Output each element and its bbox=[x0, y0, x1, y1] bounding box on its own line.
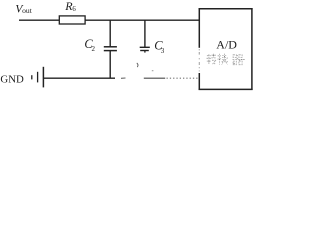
char qi bbox=[233, 55, 245, 65]
node Vout label bbox=[15, 3, 32, 15]
svg-text:6: 6 bbox=[72, 6, 76, 13]
wire bottom dotted segment bbox=[167, 77, 198, 79]
artifact speck above bottom dash bbox=[152, 69, 154, 72]
svg-text:A/D: A/D bbox=[216, 38, 237, 52]
label C3 bbox=[154, 39, 165, 55]
wire bottom faded dash 1 bbox=[121, 77, 126, 79]
svg-text:out: out bbox=[22, 6, 33, 15]
wire top-left segment (Vout to R6) bbox=[19, 19, 60, 21]
artifact arc (scan mark near C3) bbox=[137, 63, 138, 67]
capacitor C3 bbox=[140, 20, 150, 53]
svg-text:GND: GND bbox=[0, 73, 24, 85]
char huan bbox=[217, 54, 228, 65]
resistor R6 bbox=[59, 16, 85, 24]
label C2 bbox=[84, 37, 95, 53]
label converter (faded CJK, drawn strokes) bbox=[207, 54, 245, 65]
wire bottom faded dash 2 bbox=[144, 77, 165, 79]
char zhuan bbox=[207, 54, 217, 65]
A/D box U1 bbox=[199, 8, 253, 90]
darker specks in faded text bbox=[209, 55, 245, 64]
label R6 bbox=[64, 0, 76, 13]
ground symbol bbox=[32, 67, 44, 88]
svg-text:2: 2 bbox=[92, 45, 96, 53]
wire bottom solid segment (ground to C2 junction) bbox=[44, 77, 115, 79]
wire top-middle segment (R6 to A/D box) bbox=[85, 19, 200, 21]
svg-text:3: 3 bbox=[161, 47, 165, 55]
capacitor C2 bbox=[104, 20, 117, 79]
